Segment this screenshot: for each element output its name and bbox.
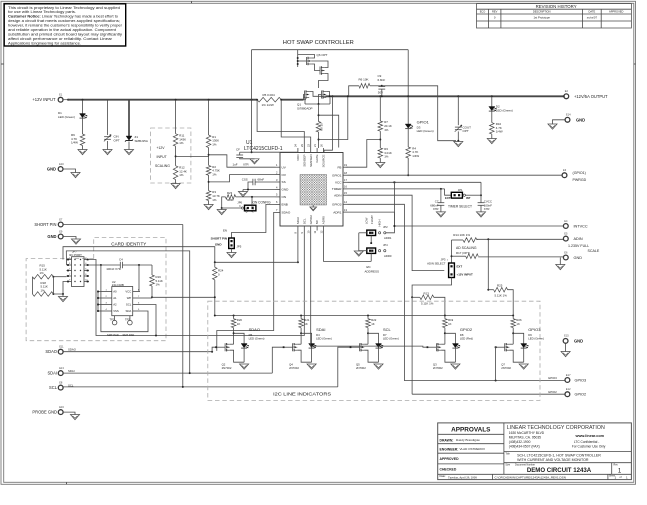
SDAO wire to Q2 gate [212, 347, 215, 352]
svg-text:ADR0: ADR0 [322, 216, 326, 224]
svg-text:SDAI: SDAI [68, 369, 75, 373]
svg-text:1%: 1% [40, 271, 45, 275]
jumper JP2 ADR1 [384, 232, 386, 234]
svg-text:CARD IDENTITY: CARD IDENTITY [111, 241, 147, 246]
junction D3 at bus [407, 95, 409, 97]
svg-text:E4: E4 [564, 219, 568, 223]
svg-text:+12V/5A OUTPUT: +12V/5A OUTPUT [574, 94, 608, 99]
SDAI riser to cell 2 [272, 347, 282, 373]
svg-text:1st Prototype: 1st Prototype [533, 16, 550, 20]
svg-text:INTVCC: INTVCC [574, 225, 588, 229]
svg-text:SENSEP: SENSEP [302, 155, 306, 167]
svg-text:Title: Title [505, 453, 510, 456]
title block frame [438, 423, 632, 480]
svg-text:1/4W: 1/4W [71, 141, 78, 145]
terminal E12 GPIO2 [565, 392, 570, 397]
svg-text:VCC: VCC [335, 181, 342, 185]
U1 pin 16 TIMER [343, 188, 348, 190]
svg-text:1%: 1% [212, 142, 217, 146]
title block doc number separator [504, 462, 632, 464]
U1 pin 12 ADR0 [323, 226, 325, 231]
indicator cell SDAO: LED D5 [234, 333, 245, 343]
indicator cell GPIO3: resistor R26 1K [512, 315, 514, 317]
svg-text:INPUT: INPUT [157, 155, 167, 159]
wire R8 junction jog lower [319, 96, 348, 139]
wire R11 to R12 junction [175, 146, 177, 166]
wire R1 to R2 [208, 148, 210, 166]
svg-text:I2C LINE INDICATORS: I2C LINE INDICATORS [273, 391, 331, 396]
indicator cell GPIO2: LED D8 [445, 333, 456, 343]
svg-text:DEMO CIRCUIT 1243A: DEMO CIRCUIT 1243A [527, 467, 592, 474]
U1 pin 15 ADIN [343, 194, 348, 196]
svg-text:E17: E17 [566, 373, 571, 377]
wire R15 to JP7 [53, 276, 66, 278]
svg-text:GND: GND [47, 167, 56, 172]
U2 pin 3 A2 [105, 304, 112, 306]
wire COUT to ground [457, 131, 459, 141]
U1 exposed pad ground [312, 205, 314, 207]
wire bus up to top rail [251, 50, 253, 100]
border zone tick bottom [66, 482, 68, 484]
svg-text:SHORT PIN: SHORT PIN [34, 222, 56, 227]
title block rev cell [611, 463, 613, 475]
dashed box +12V INPUT SCALING [151, 128, 191, 183]
svg-text:E5: E5 [564, 231, 568, 235]
svg-text:2N7002: 2N7002 [501, 366, 511, 370]
svg-text:R5 0.004: R5 0.004 [263, 93, 276, 97]
terminal E8 SCL [58, 385, 63, 390]
ground E15 [565, 343, 567, 351]
svg-text:SDAO: SDAO [68, 348, 77, 352]
wire R10 to ground [491, 134, 493, 138]
junction R7 at bus [379, 95, 381, 97]
U1 pin 5 ON [276, 196, 281, 198]
svg-text:Applications Engineering for a: Applications Engineering for assistance. [8, 41, 81, 45]
GPIO2 gate feed from U1 pin 10 [311, 231, 427, 348]
svg-text:(GPIO1): (GPIO1) [573, 171, 586, 175]
svg-text:SENSEN: SENSEN [309, 155, 313, 167]
svg-text:LED (Green): LED (Green) [528, 336, 544, 340]
svg-text:LED (Green): LED (Green) [383, 336, 399, 340]
svg-text:E13: E13 [59, 366, 64, 370]
SCL net wire [63, 386, 338, 388]
svg-text:xx/xx/07: xx/xx/07 [587, 16, 598, 20]
wire D2 to R10 [491, 111, 493, 123]
svg-text:GPIO2: GPIO2 [460, 327, 473, 332]
dashed box I2C LINE INDICATORS [208, 301, 540, 400]
svg-text:1uF: 1uF [233, 163, 238, 167]
wire VDD feed [252, 100, 298, 153]
svg-text:909K: 909K [227, 198, 234, 202]
resistor R11 143K 1% [173, 134, 178, 147]
svg-text:for use with Linear Technology: for use with Linear Technology parts. [8, 10, 76, 14]
wire bus to CIN [107, 100, 109, 135]
VCC drop to INTVCC [393, 182, 395, 226]
ground U1 GND pin [238, 192, 247, 197]
svg-text:AUTO: AUTO [251, 204, 255, 213]
resistor R6 10K [359, 84, 370, 89]
ground below R12 [171, 184, 180, 189]
junction SOURCE feed at bus [331, 95, 333, 97]
svg-text:LED (Green): LED (Green) [496, 108, 513, 112]
U1 pin 1 UV [276, 166, 281, 168]
gate resistor column R8 [318, 103, 320, 105]
terminal E10 GND [58, 167, 63, 172]
svg-text:SCALING: SCALING [155, 164, 170, 168]
JP4 stub to ADR0 net [370, 253, 372, 261]
svg-text:SCL: SCL [302, 218, 306, 224]
svg-text:(408)432-1900: (408)432-1900 [509, 440, 531, 444]
svg-text:WP: WP [127, 296, 132, 300]
ground C7 [436, 212, 445, 217]
svg-text:PWRGD: PWRGD [573, 178, 587, 182]
svg-text:GND: GND [574, 256, 583, 260]
svg-text:SDAO: SDAO [282, 211, 291, 215]
wire Z1 to ground [128, 142, 130, 150]
SDAO net wire [63, 351, 212, 353]
junction R11 at bus [175, 99, 177, 101]
svg-text:ENB: ENB [282, 203, 288, 207]
svg-text:of: of [620, 476, 622, 479]
svg-text:X7R: X7R [243, 163, 249, 167]
input bus continues after R5 [281, 99, 303, 101]
card identity bus row 1 [63, 247, 215, 263]
svg-text:CHECKED: CHECKED [440, 468, 457, 472]
ground below Z1 [124, 150, 133, 155]
terminal E16 PROBE GND [58, 410, 63, 415]
ground below COUT [454, 142, 463, 147]
indicator pull-up rail [215, 315, 513, 317]
svg-text:A1: A1 [113, 296, 117, 300]
svg-text:1K: 1K [371, 322, 375, 326]
zener Z1 SMBJ15A [126, 136, 132, 140]
FB tap wire [346, 140, 380, 168]
svg-text:SCL: SCL [126, 303, 132, 307]
svg-text:HOT SWAP CONTROLLER: HOT SWAP CONTROLLER [283, 40, 354, 46]
svg-text:SS: SS [282, 180, 286, 184]
svg-text:Size: Size [505, 464, 510, 467]
jumper JP1 TIMER SELECT [451, 192, 462, 198]
U1 pin 8 SDAI [297, 226, 299, 231]
wire E10 to ground [63, 169, 76, 173]
svg-text:Randy Brandigale: Randy Brandigale [456, 438, 480, 442]
terminal E4 INTVCC [563, 224, 568, 229]
svg-text:LTC4215CUFD-1: LTC4215CUFD-1 [244, 146, 283, 152]
svg-text:www.linear.com: www.linear.com [575, 434, 605, 438]
svg-text:1K: 1K [448, 322, 452, 326]
wire R8 junction jog upper [319, 115, 339, 147]
R14/R17 column [451, 240, 453, 259]
svg-text:EXT: EXT [457, 265, 463, 269]
indicator cell SCL: transistor Q5 2N7002 [359, 343, 361, 351]
svg-text:REVISION HISTORY: REVISION HISTORY [536, 4, 577, 9]
resistor R17 (OPT) [452, 255, 466, 257]
svg-text:JP4: JP4 [383, 243, 388, 247]
svg-text:LED (Green): LED (Green) [316, 336, 332, 340]
short pin long vertical [182, 225, 184, 387]
SENSEN kelvin wire [281, 100, 311, 148]
wire CIN to ground [107, 141, 109, 150]
capacitor CF 1uF X7R [240, 151, 252, 153]
resistor R24 0 [214, 262, 216, 267]
U1 pin 7 SDAO [276, 211, 281, 213]
svg-text:E2: E2 [565, 89, 569, 93]
U1 pin 24 VDD [297, 148, 299, 153]
wire Q6 to Q1 gates [319, 74, 329, 89]
resistor R8 10 [316, 122, 321, 133]
wire top rail down to output bus [407, 50, 409, 97]
indicator cell SDAO: LED cathode to ground [243, 348, 245, 362]
svg-text:Q6 OPT: Q6 OPT [317, 53, 328, 57]
svg-text:SDAO: SDAO [249, 327, 260, 332]
svg-text:+12V: +12V [157, 146, 166, 150]
wire R3 to ground [208, 201, 210, 205]
resistor R23 909K [226, 195, 236, 200]
svg-text:EXT: EXT [445, 196, 451, 200]
capacitor CVCC 100nF X7R [478, 202, 485, 204]
svg-text:GPIO1: GPIO1 [332, 173, 342, 177]
svg-text:TP1: TP1 [110, 318, 115, 322]
terminal E14 GND [565, 117, 570, 122]
U1 pin 14 GPIO3 [343, 203, 348, 205]
svg-text:C4: C4 [119, 257, 123, 261]
terminal E15 GND [563, 339, 568, 344]
SDAI net wire [63, 372, 272, 374]
svg-text:SMT PAD: SMT PAD [123, 333, 135, 337]
svg-text:LOW: LOW [364, 217, 368, 224]
svg-text:ON: ON [245, 208, 249, 212]
svg-text:OPT: OPT [463, 129, 469, 133]
GPIO2 long vertical [411, 297, 413, 394]
svg-text:GPIO2: GPIO2 [575, 393, 587, 397]
U2 pin 4 VSS [105, 310, 112, 312]
wire R25 to R26 column [508, 290, 514, 316]
ground E6 [559, 258, 561, 265]
GPIO3 net wire [348, 204, 565, 380]
U1 pin 21 GATE [316, 148, 318, 153]
svg-text:OPT: OPT [114, 138, 120, 142]
svg-text:2N7002: 2N7002 [289, 366, 299, 370]
wire R19card row to R24 column [152, 296, 215, 298]
SDAO pin wire [217, 212, 276, 351]
dashed box CARD IDENTITY [26, 237, 166, 340]
terminal E13 SDAI [58, 371, 63, 376]
jumper JP5 (EN short) [229, 238, 235, 249]
wire R9 to ground [82, 146, 84, 150]
svg-text:APPROVED: APPROVED [609, 10, 624, 14]
wire C9 node to COUT area [382, 86, 456, 141]
svg-text:design a circuit that meets cu: design a circuit that meets customer-sup… [8, 19, 120, 23]
resistor R13 5.11K 1% [411, 296, 413, 298]
svg-text:GND: GND [282, 188, 290, 192]
svg-text:TIMER: TIMER [332, 187, 342, 191]
svg-text:2N7002: 2N7002 [222, 366, 232, 370]
IC U2 24LC02B body [112, 287, 133, 316]
wire R23 to ground [222, 197, 226, 208]
svg-text:X7R: X7R [433, 207, 439, 211]
resistor R14 10K 1% [452, 239, 464, 241]
LED D3 (Green) [405, 124, 411, 128]
U2 pin 2 A1 [105, 297, 112, 299]
sense resistor R5 0.004 1% 1/2W [256, 99, 258, 101]
border zone tick top [191, 1, 193, 3]
svg-text:LINEAR TECHNOLOGY CORPORATION: LINEAR TECHNOLOGY CORPORATION [507, 425, 605, 431]
svg-text:1/4W: 1/4W [412, 154, 419, 158]
svg-text:R25: R25 [497, 284, 503, 288]
svg-text:SOURCE: SOURCE [322, 155, 326, 168]
svg-text:JP1: JP1 [458, 188, 463, 192]
svg-text:This circuit is proprietary to: This circuit is proprietary to Linear Te… [8, 6, 120, 10]
svg-text:6.8nF: 6.8nF [378, 78, 386, 82]
svg-text:SDA: SDA [126, 309, 132, 313]
U2 pin 5 SDA [133, 310, 140, 312]
wire UV tap [209, 155, 276, 167]
indicator cell SDAI: ground [307, 364, 316, 369]
svg-text:LTC Confidential -: LTC Confidential - [574, 440, 599, 444]
svg-text:R6 10K: R6 10K [359, 78, 369, 82]
wire E9 to ground [63, 237, 76, 240]
ground below CIN [103, 150, 112, 155]
capacitor C7 680nF X7R [440, 189, 442, 203]
svg-text:1K: 1K [516, 322, 520, 326]
svg-text:SCH, LTC4215CUFD-1, HOT SWAP C: SCH, LTC4215CUFD-1, HOT SWAP CONTROLLER [517, 453, 601, 457]
svg-text:ENGINEER:: ENGINEER: [440, 448, 459, 452]
svg-text:Customer Notice: Linear Techno: Customer Notice: Linear Technology has m… [8, 15, 118, 19]
svg-text:E12: E12 [566, 387, 571, 391]
JP6 to ON net [251, 197, 253, 205]
U1 pin 23 SENSEP [303, 148, 305, 153]
U1 pin 3 SS [276, 181, 281, 183]
svg-text:1%: 1% [212, 198, 217, 202]
input power bus +12V [68, 99, 257, 101]
U1 pin 10 GPIO2 [310, 226, 312, 231]
svg-text:SDAI: SDAI [296, 217, 300, 224]
resistor R25 5.11K 1% [494, 287, 508, 292]
svg-text:ADDRESS: ADDRESS [365, 270, 380, 274]
SDAI drop from U1 pin 8 [297, 231, 299, 263]
resistor R10 4.7K 1/4W [490, 123, 495, 135]
op-amp U1 LTC4215CUFD-1 body [280, 153, 343, 227]
svg-text:GPIO3: GPIO3 [548, 376, 557, 380]
svg-text:1K: 1K [237, 322, 241, 326]
wire bus to D1 [82, 100, 84, 114]
wire U2 SDA loop [101, 265, 148, 332]
JP2 float stub [370, 236, 372, 244]
svg-text:E9: E9 [59, 229, 63, 233]
svg-text:substitution and printed circu: substitution and printed circuit board l… [8, 33, 122, 37]
SCL riser to cell 3 [338, 347, 350, 387]
capacitor CSS 68nF [255, 181, 275, 183]
EN pin wire [232, 204, 276, 238]
wire U2 SCL loop [89, 260, 156, 336]
svg-text:SMBJ15A: SMBJ15A [135, 139, 148, 143]
wire R12 to ground [175, 180, 177, 184]
indicator cell GPIO2: LED cathode to ground [454, 348, 456, 362]
indicator cell SCL: LED cathode to ground [378, 348, 380, 362]
wire R14 to E5 [477, 238, 563, 240]
indicator cell GPIO2: resistor R19 1K [444, 315, 446, 317]
wire R13 to R19 column [434, 297, 445, 315]
VCC net wire [348, 181, 482, 183]
svg-text:E11: E11 [59, 345, 64, 349]
JP1 INT to VCC column [465, 194, 481, 196]
wire bus to R11 [175, 100, 177, 134]
svg-text:R14 10K 1%: R14 10K 1% [453, 233, 470, 237]
svg-text:MILPITAS, CA. 95035: MILPITAS, CA. 95035 [509, 436, 541, 440]
title block title separator [504, 451, 632, 453]
indicator cell GPIO2: ground [451, 364, 460, 369]
resistor R7 20.1K 1% [378, 121, 383, 131]
wire bus to D3 [407, 96, 409, 124]
U1 pin 19 FB [343, 166, 348, 168]
ADIN net wire [348, 195, 445, 270]
svg-text:E14: E14 [566, 113, 571, 117]
svg-text:24LC02B: 24LC02B [112, 283, 124, 287]
U1 pin 20 SOURCE [323, 148, 325, 153]
svg-text:R23: R23 [227, 191, 233, 195]
svg-text:E10: E10 [59, 162, 64, 166]
resistor R12 12.4K 1% [173, 166, 178, 180]
wire R2 to R3 [208, 175, 210, 190]
U1 pin 6 ENB [276, 203, 281, 205]
svg-text:LED (Green): LED (Green) [417, 129, 434, 133]
wire bus to Z1 (thick) [128, 100, 130, 136]
svg-text:ON CONFIG: ON CONFIG [253, 200, 272, 204]
svg-text:SHORT PIN: SHORT PIN [211, 236, 227, 240]
junction COUT at bus [457, 95, 459, 97]
U2 pin 7 WP [133, 297, 140, 299]
GPIO2 net wire to E12 [412, 393, 565, 395]
ground below R9 [78, 150, 87, 155]
terminal E5 ADIN [563, 236, 568, 241]
svg-text:GPIO3: GPIO3 [575, 379, 587, 383]
terminal E6 GND [563, 255, 568, 260]
SCL drop from U1 pin 9 [156, 231, 304, 336]
svg-text:GPIO3: GPIO3 [332, 203, 342, 207]
wire E16 to ground [63, 412, 75, 414]
svg-text:E6: E6 [564, 250, 568, 254]
wire bus to SOURCE pin [324, 96, 332, 152]
svg-text:TIMER SELECT: TIMER SELECT [448, 205, 472, 209]
junction R1 at bus [208, 99, 210, 101]
GPIO3 gate feed [494, 347, 497, 380]
ground R23 [217, 210, 226, 215]
LED D2 (Green) [489, 107, 495, 111]
indicator cell GPIO3: LED D6 [513, 333, 524, 343]
indicator cell SDAO: transistor Q2 2N7002 [224, 343, 226, 351]
svg-text:SDAI: SDAI [47, 371, 57, 376]
svg-text:CSS: CSS [242, 178, 248, 182]
svg-text:X7R: X7R [484, 207, 490, 211]
svg-text:1%: 1% [212, 173, 217, 177]
svg-text:(408)434-0507 (FAX): (408)434-0507 (FAX) [509, 444, 540, 448]
svg-text:R13: R13 [424, 291, 430, 295]
svg-text:JP5: JP5 [237, 244, 242, 248]
ground E10 [71, 173, 80, 178]
ground E14 [548, 124, 557, 129]
indicator cell SDAI: transistor Q4 2N7002 [292, 343, 294, 351]
INTVCC net wire [394, 225, 563, 227]
svg-text:and reliable operation in the: and reliable operation in the actual app… [8, 28, 116, 32]
svg-text:GPIO3: GPIO3 [528, 327, 541, 332]
svg-text:R8 10: R8 10 [320, 123, 324, 131]
svg-text:Si7880ADP: Si7880ADP [297, 106, 313, 110]
wire E14 to ground [553, 120, 566, 124]
svg-text:AD SCALING: AD SCALING [456, 246, 477, 250]
svg-text:SMT PAD: SMT PAD [107, 333, 119, 337]
svg-text:LED (Green): LED (Green) [249, 336, 265, 340]
SHORT PIN net wire [63, 224, 183, 226]
